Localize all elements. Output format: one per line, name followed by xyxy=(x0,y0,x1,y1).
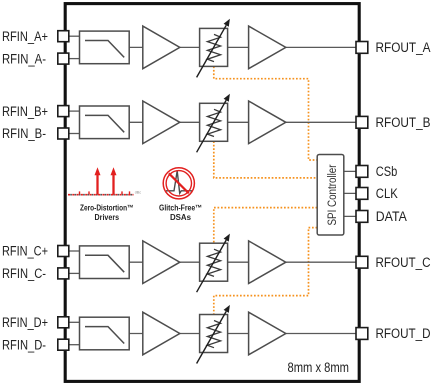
output amplifier A2 xyxy=(249,26,286,69)
chip package outline xyxy=(65,4,359,382)
output amplifier D2 xyxy=(249,312,286,355)
svg-text:RFIN_A+: RFIN_A+ xyxy=(2,29,48,44)
driver amplifier A1 xyxy=(143,26,180,69)
RFIN_A+ pin xyxy=(58,31,69,42)
wire channel D signal path xyxy=(129,333,362,335)
svg-text:RFOUT_D: RFOUT_D xyxy=(376,326,431,341)
wire SPI to DATA pin xyxy=(344,215,362,217)
driver amplifier C1 xyxy=(143,241,180,284)
wire RFIN_D- pin to equalizer xyxy=(69,344,80,346)
RFIN_B+ pin xyxy=(58,106,69,117)
svg-text:DSAs: DSAs xyxy=(170,212,191,222)
slope equalizer block channel C xyxy=(80,246,130,279)
svg-text:CSb: CSb xyxy=(376,164,398,179)
wire RFIN_B+ pin to equalizer xyxy=(69,110,80,112)
RFOUT_B pin xyxy=(356,116,368,128)
output amplifier B2 xyxy=(249,101,286,144)
wire SPI to CLK pin xyxy=(344,192,362,194)
wire RFIN_C- pin to equalizer xyxy=(69,272,80,274)
svg-text:CLK: CLK xyxy=(376,186,398,201)
svg-text:8mm x 8mm: 8mm x 8mm xyxy=(288,360,350,375)
Glitch-Free DSAs icon xyxy=(163,168,194,199)
slope equalizer block channel B xyxy=(80,106,130,139)
wire SPI to CSb pin xyxy=(344,170,362,172)
slope equalizer block channel A xyxy=(80,31,130,64)
wire RFIN_A+ pin to equalizer xyxy=(69,35,80,37)
wire RFIN_A- pin to equalizer xyxy=(69,58,80,60)
SPI Controller block U1 xyxy=(317,155,344,236)
variable attenuator DSA C xyxy=(197,234,230,293)
wire RFIN_D+ pin to equalizer xyxy=(69,321,80,323)
svg-text:RFOUT_A: RFOUT_A xyxy=(376,40,431,55)
RFOUT_A pin xyxy=(356,42,368,54)
RFIN_A- pin xyxy=(58,53,69,64)
CSb pin xyxy=(356,166,368,178)
driver amplifier B1 xyxy=(143,101,180,144)
wire channel C signal path xyxy=(129,261,362,263)
svg-text:dBc: dBc xyxy=(135,191,141,195)
svg-text:RFIN_B+: RFIN_B+ xyxy=(2,104,48,119)
RFOUT_D pin xyxy=(356,328,368,340)
RFIN_C+ pin xyxy=(58,246,69,257)
variable attenuator DSA B xyxy=(197,94,230,153)
slope equalizer block channel D xyxy=(80,317,130,350)
svg-text:RFOUT_C: RFOUT_C xyxy=(376,255,431,270)
RFIN_D+ pin xyxy=(58,317,69,328)
DATA pin xyxy=(356,211,368,223)
label Glitch-Free DSAs xyxy=(159,203,202,222)
label Zero-Distortion Drivers xyxy=(80,203,134,222)
RFOUT_C pin xyxy=(356,256,368,268)
wire channel B signal path xyxy=(129,121,362,123)
RFIN_C- pin xyxy=(58,268,69,279)
wire RFIN_B- pin to equalizer xyxy=(69,133,80,135)
svg-text:RFIN_A-: RFIN_A- xyxy=(2,51,46,66)
control line SPI to attenuator C xyxy=(214,208,317,244)
control line SPI to attenuator B xyxy=(214,141,317,178)
svg-text:SPI Controller: SPI Controller xyxy=(327,164,339,225)
control line SPI to attenuator A xyxy=(214,66,317,160)
RFIN_D- pin xyxy=(58,339,69,350)
svg-text:RFIN_D+: RFIN_D+ xyxy=(2,315,48,330)
RFIN_B- pin xyxy=(58,128,69,139)
output amplifier C2 xyxy=(249,241,286,284)
Zero-Distortion Drivers icon xyxy=(68,167,141,194)
svg-text:RFIN_D-: RFIN_D- xyxy=(2,337,46,352)
svg-text:RFIN_C+: RFIN_C+ xyxy=(2,244,48,259)
CLK pin xyxy=(356,188,368,200)
wire RFIN_C+ pin to equalizer xyxy=(69,250,80,252)
svg-text:DATA: DATA xyxy=(376,209,407,224)
variable attenuator DSA D xyxy=(197,305,230,364)
svg-text:RFIN_B-: RFIN_B- xyxy=(2,126,46,141)
svg-text:Drivers: Drivers xyxy=(95,212,120,222)
variable attenuator DSA A xyxy=(197,19,230,78)
svg-text:RFIN_C-: RFIN_C- xyxy=(2,266,46,281)
control line SPI to attenuator D xyxy=(214,228,317,315)
driver amplifier D1 xyxy=(143,312,180,355)
svg-text:RFOUT_B: RFOUT_B xyxy=(376,115,431,130)
wire channel A signal path xyxy=(129,46,362,48)
